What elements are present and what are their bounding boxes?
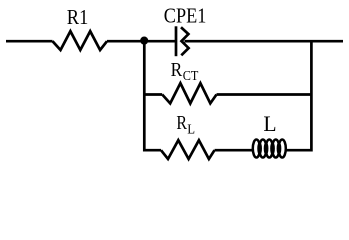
wire left vertical branch — [144, 41, 161, 150]
wire middle branch left — [143, 93, 162, 96]
wire right vertical branch — [287, 41, 312, 150]
svg-text:L: L — [187, 122, 195, 137]
inductor L coil loop 1 — [253, 140, 260, 158]
wire CPE to right lead — [185, 40, 344, 43]
inductor L inner sliver 3 — [271, 143, 274, 153]
wire middle branch right — [217, 93, 312, 96]
inductor L coil loop 4 — [272, 140, 279, 158]
wire R1 to node — [107, 40, 176, 43]
svg-text:R: R — [171, 59, 183, 81]
inductor L coil loop 2 — [259, 140, 266, 158]
inductor L coil loop 3 — [266, 140, 273, 158]
resistor R1 — [53, 31, 108, 50]
CPE CPE1 zigzag plate — [181, 27, 189, 55]
wire left lead — [6, 40, 53, 43]
wire RL to inductor — [215, 149, 253, 152]
resistor RCT — [162, 83, 216, 103]
svg-text:CT: CT — [183, 69, 199, 84]
inductor L inner sliver 4 — [277, 143, 280, 153]
inductor L coil loop 5 — [279, 140, 286, 158]
svg-text:R: R — [176, 112, 187, 134]
resistor RL — [161, 140, 215, 159]
node junction dot — [140, 37, 148, 45]
inductor L inner sliver 2 — [265, 143, 268, 153]
svg-text:L: L — [263, 111, 276, 136]
inductor L inner sliver 1 — [258, 143, 261, 153]
svg-text:R1: R1 — [67, 5, 89, 29]
CPE CPE1 left plate — [175, 26, 178, 56]
svg-text:CPE1: CPE1 — [164, 4, 207, 28]
